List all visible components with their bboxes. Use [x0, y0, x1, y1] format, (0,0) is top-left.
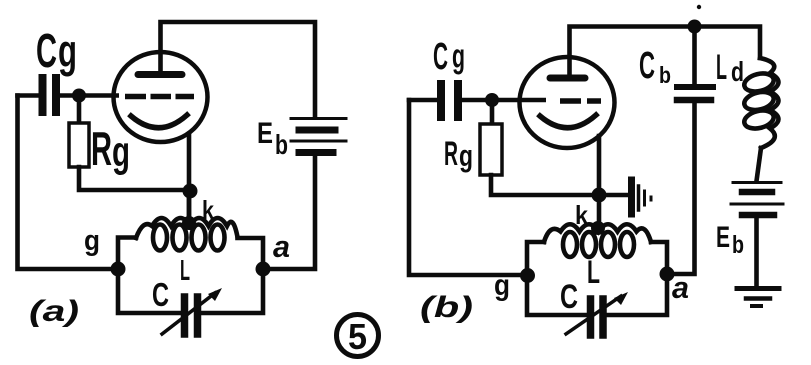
svg-text:(b): (b) [420, 291, 473, 324]
svg-text:k: k [202, 195, 214, 225]
svg-text:R: R [444, 135, 458, 173]
svg-text:L: L [716, 48, 727, 87]
svg-text:g: g [452, 38, 465, 76]
svg-text:C: C [433, 36, 448, 78]
svg-text:a: a [273, 229, 290, 264]
svg-text:5: 5 [348, 316, 367, 357]
svg-text:g: g [494, 269, 510, 302]
svg-text:a: a [672, 270, 689, 305]
svg-text:g: g [58, 25, 77, 77]
svg-text:C: C [152, 276, 169, 313]
svg-text:g: g [112, 128, 130, 176]
svg-text:k: k [575, 200, 588, 230]
svg-text:g: g [459, 138, 473, 173]
svg-text:d: d [731, 56, 744, 87]
svg-text:L: L [587, 254, 600, 290]
svg-text:R: R [91, 122, 112, 175]
svg-text:C: C [639, 45, 655, 87]
svg-text:b: b [659, 62, 671, 88]
svg-text:C: C [560, 278, 578, 316]
svg-text:C: C [36, 25, 57, 78]
svg-text:(a): (a) [29, 295, 79, 328]
svg-text:E: E [716, 221, 730, 254]
svg-text:L: L [180, 255, 190, 287]
svg-text:E: E [257, 117, 273, 150]
svg-text:b: b [275, 129, 288, 160]
svg-text:b: b [732, 231, 744, 259]
svg-text:g: g [84, 225, 100, 257]
